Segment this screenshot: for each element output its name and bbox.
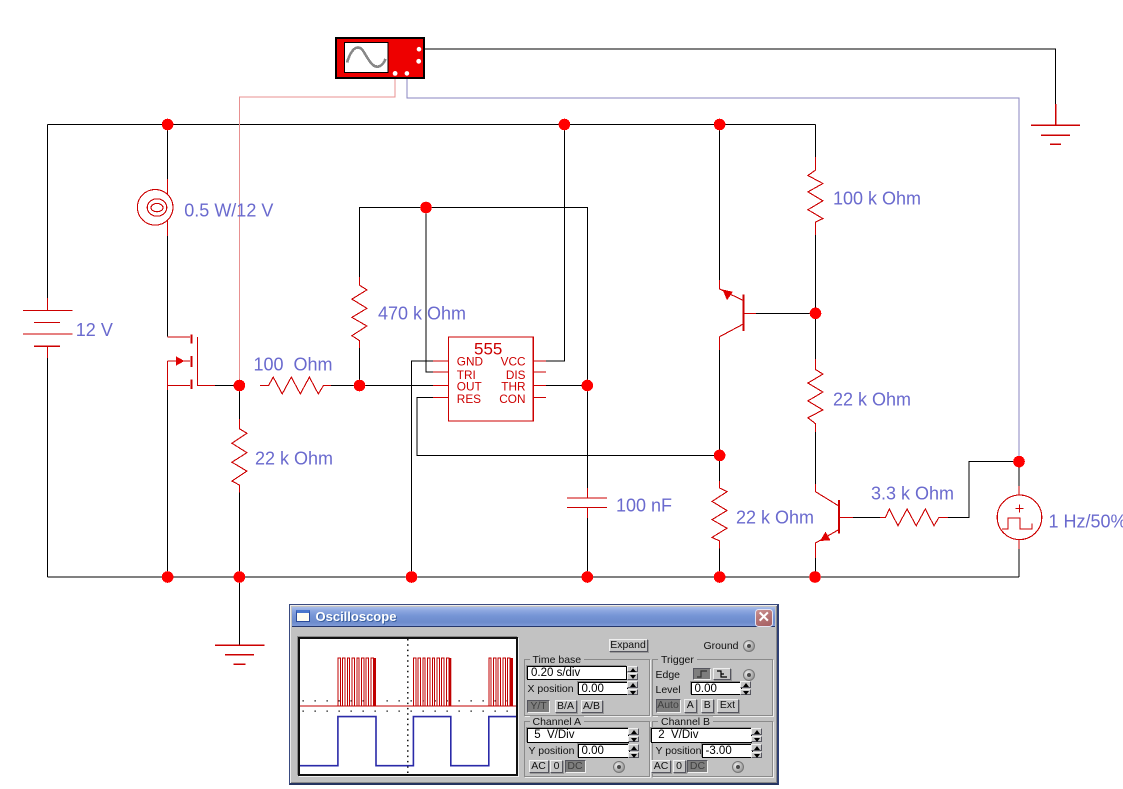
Trigger group (652, 659, 773, 716)
svg-text:100 Ohm: 100 Ohm (254, 355, 333, 375)
wire: R4 bottom to node E (814, 234, 816, 313)
node top rail / VCC (559, 119, 571, 131)
svg-text:22 k Ohm: 22 k Ohm (736, 508, 814, 528)
svg-text:100 nF: 100 nF (616, 495, 672, 515)
resistor R2 22 k Ohm (232, 419, 247, 492)
wire: Q3 emitter to bottom rail (815, 556, 817, 577)
node C THR (582, 380, 594, 392)
wire: bottom rail (48, 576, 1020, 578)
Expand button (609, 639, 648, 653)
scope grid dotted vertical (406, 639, 408, 773)
wire: node C to capacitor (586, 386, 588, 491)
wire: Q3 base to R7 (852, 516, 880, 518)
resistor R1 100 Ohm (260, 377, 331, 394)
wire: node F to source V2 (1018, 462, 1020, 488)
bottom rail nodes (162, 571, 174, 583)
wire: RES loop (417, 398, 720, 456)
svg-text:RES: RES (457, 392, 481, 406)
wire: left rail lower (battery bottom) (47, 358, 49, 577)
wire: THR to node C (546, 385, 587, 387)
wire: gate to node A (215, 385, 239, 387)
wire: capacitor to bottom rail (586, 516, 588, 577)
wire: VCC to top rail (546, 125, 564, 362)
wire: R6 bottom to bottom rail (719, 548, 721, 577)
wire: GND pin to bottom rail (412, 361, 434, 577)
wire: R3 bottom to node B (358, 348, 360, 386)
svg-text:VCC: VCC (501, 355, 526, 369)
svg-text:22 k Ohm: 22 k Ohm (255, 449, 333, 469)
svg-text:22 k Ohm: 22 k Ohm (833, 390, 911, 410)
resistor R3 470 k Ohm (352, 277, 367, 348)
svg-text:CON: CON (499, 392, 525, 406)
transistor Q3 (BJT lower) (816, 484, 854, 558)
resistor R7 3.3 k Ohm (880, 509, 948, 526)
node D RES loop (714, 450, 726, 462)
wire: Q2 base to node E (754, 312, 816, 314)
node E Q2 base (810, 308, 822, 320)
source V2 1 Hz/50% (997, 486, 1042, 549)
svg-text:3.3 k Ohm: 3.3 k Ohm (871, 484, 954, 504)
resistor R5 22 k Ohm (808, 359, 823, 432)
wire: lamp to mosfet drain (167, 235, 169, 337)
wire: R7 to node F (947, 462, 1019, 518)
wire: mosfet source to bottom rail (167, 390, 169, 577)
wire: R2 bottom to bottom rail (238, 492, 240, 577)
node A gate (234, 380, 246, 392)
trace channel A baseline (300, 705, 517, 707)
wire: Q2 emitter to top rail (719, 125, 721, 283)
wire: source V2 to bottom rail (1018, 548, 1020, 577)
node top rail / Q2 emitter (714, 119, 726, 131)
svg-text:GND: GND (457, 355, 483, 369)
transistor Q1 (MOSFET) (168, 334, 215, 390)
wire: top rail corner down to R4 (815, 125, 817, 159)
ground GND1 (left) (215, 577, 265, 664)
svg-text:470 k Ohm: 470 k Ohm (378, 304, 466, 324)
node F source (1013, 456, 1025, 468)
ground GND2 (right) (1031, 104, 1080, 144)
trace channel B square wave (300, 717, 517, 766)
oscilloscope icon XSC1 (336, 38, 424, 78)
Time base group (524, 659, 650, 716)
battery V1 (23, 298, 73, 358)
wire: R3 top lead rail (359, 208, 587, 381)
arrow: Q3 emitter (820, 532, 831, 541)
wire: scope terminal to right ground (424, 49, 1056, 106)
wire: scope channel A (salmon) (239, 78, 395, 386)
wire: left rail upper (battery top) (47, 125, 49, 299)
Channel A group (524, 721, 650, 777)
capacitor C1 100 nF (567, 488, 607, 518)
node TRI tap (420, 202, 432, 214)
label U1 555 (457, 340, 526, 407)
transistor Q2 (BJT upper) (720, 280, 756, 350)
lamp X1 (137, 179, 173, 236)
Ground radio (743, 640, 755, 652)
wire: scope channel B (blue) (407, 78, 1019, 462)
wire: Q2 collector to node D (719, 349, 721, 455)
arrow: Q2 emitter (723, 290, 733, 301)
node top rail / lamp (162, 119, 174, 131)
wire: lamp branch upper (167, 125, 169, 181)
resistor R4 100 k Ohm (808, 157, 823, 235)
wire: node E to R5 top (814, 313, 816, 360)
arrow: Q1 body (176, 356, 185, 365)
oscilloscope window (289, 604, 779, 785)
wire: R5 bottom to Q3 collector (814, 431, 816, 486)
svg-text:1 Hz/50%: 1 Hz/50% (1049, 511, 1123, 531)
wire: TRI tap (426, 208, 433, 373)
IC U1 555 (433, 337, 546, 421)
wire: R1 right to 555 OUT (331, 385, 433, 387)
svg-text:12 V: 12 V (76, 320, 113, 340)
wire: node A to R2 top (238, 386, 240, 421)
svg-text:0.5 W/12 V: 0.5 W/12 V (184, 201, 273, 221)
wire: top rail (48, 124, 816, 126)
trace channel A pulses (337, 658, 509, 706)
scope axis dotted (300, 705, 517, 707)
svg-text:100 k Ohm: 100 k Ohm (833, 189, 921, 209)
Ground label (704, 640, 739, 652)
wire: node D to R6 (719, 455, 721, 482)
Channel B group (652, 721, 773, 777)
resistor R6 22 k Ohm (712, 481, 727, 549)
node B R1/R3 (354, 380, 366, 392)
